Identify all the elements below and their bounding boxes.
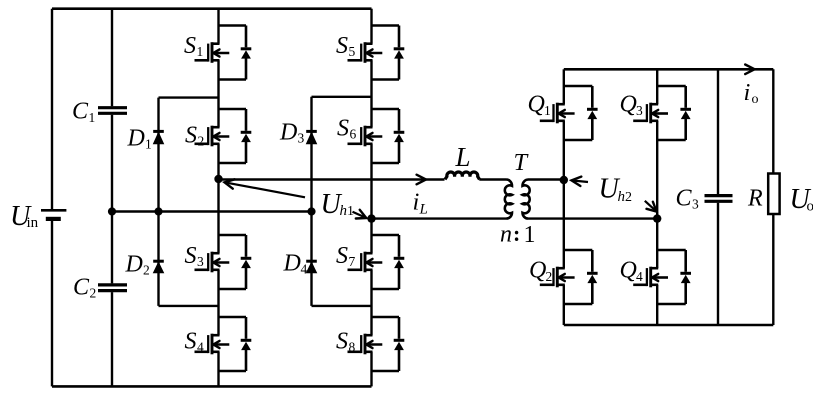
svg-text:S: S xyxy=(185,123,197,149)
svg-text:3: 3 xyxy=(298,131,305,146)
svg-text:1: 1 xyxy=(524,222,536,248)
label D4 xyxy=(283,251,308,277)
svg-text:C: C xyxy=(72,99,89,125)
wire switch leg 1 xyxy=(217,9,219,387)
svg-text:1: 1 xyxy=(145,137,152,152)
transistor S5 xyxy=(348,26,405,80)
svg-text:8: 8 xyxy=(349,340,356,355)
wire D3 top connector xyxy=(312,96,372,98)
transistor S2 xyxy=(195,109,252,163)
wire C3 leg xyxy=(717,69,719,194)
svg-text:4: 4 xyxy=(197,340,204,355)
svg-text:3: 3 xyxy=(197,254,204,269)
svg-text:D: D xyxy=(283,251,301,277)
transistor Q3 xyxy=(633,86,691,140)
label i_L xyxy=(413,189,420,216)
transistor S4 xyxy=(195,317,252,371)
label U_h1 xyxy=(321,189,343,220)
label n:1 xyxy=(500,221,536,248)
svg-text:S: S xyxy=(336,329,348,355)
svg-text:1: 1 xyxy=(347,204,354,219)
svg-text:R: R xyxy=(747,186,763,212)
svg-text:2: 2 xyxy=(625,190,632,205)
svg-text:i: i xyxy=(744,79,751,106)
label D2 xyxy=(125,252,150,278)
transistor S7 xyxy=(348,235,405,289)
label D3 xyxy=(279,120,305,146)
label U_h2 xyxy=(599,174,621,205)
label L xyxy=(455,142,471,172)
capacitor C2 xyxy=(98,285,127,291)
svg-text:2: 2 xyxy=(546,269,553,284)
node A (U_h1 +) xyxy=(214,175,222,183)
node C (U_h2 +) xyxy=(560,176,568,184)
label R xyxy=(747,186,763,212)
svg-text:i: i xyxy=(413,189,420,216)
wire R leg xyxy=(772,69,774,173)
svg-text:L: L xyxy=(419,202,428,218)
capacitor C3 xyxy=(705,196,733,202)
label U_o xyxy=(790,184,813,215)
svg-text:1: 1 xyxy=(544,103,551,118)
wire D1 top connector xyxy=(159,96,219,98)
wire switch leg 2 xyxy=(370,9,372,387)
transformer T secondary winding xyxy=(522,180,529,219)
transistor Q4 xyxy=(633,250,691,304)
svg-text:4: 4 xyxy=(301,262,308,277)
svg-text:Q: Q xyxy=(528,92,545,118)
svg-text:h: h xyxy=(618,189,626,205)
svg-text:Q: Q xyxy=(620,92,637,118)
svg-text:S: S xyxy=(336,33,348,59)
svg-text:1: 1 xyxy=(89,110,96,125)
wire D2 bottom connector xyxy=(159,305,219,307)
wire capacitor leg xyxy=(111,9,113,107)
label C1 xyxy=(72,99,95,125)
diode D1 xyxy=(153,131,164,143)
arrow U_h1 to node B xyxy=(353,210,367,219)
label C3 xyxy=(676,186,700,212)
svg-text::: : xyxy=(513,221,520,246)
arrowhead i_L xyxy=(417,175,426,185)
arrow U_h2 to node C xyxy=(572,177,589,186)
label S3 xyxy=(185,243,205,269)
label D1 xyxy=(127,126,152,152)
diode D4 xyxy=(306,261,317,273)
svg-text:C: C xyxy=(73,275,90,301)
transistor Q1 xyxy=(540,86,598,140)
svg-text:4: 4 xyxy=(636,269,643,284)
svg-text:D: D xyxy=(279,120,297,146)
transformer T primary winding xyxy=(505,180,512,219)
svg-text:Q: Q xyxy=(620,258,637,284)
svg-text:3: 3 xyxy=(636,103,643,118)
wire bottom rail (primary) xyxy=(52,385,372,388)
svg-text:h: h xyxy=(340,203,348,219)
svg-text:S: S xyxy=(185,329,197,355)
diode D3 xyxy=(306,131,317,143)
label S8 xyxy=(336,329,356,355)
capacitor C1 xyxy=(98,108,127,114)
transistor Q2 xyxy=(540,250,598,304)
svg-text:5: 5 xyxy=(349,44,356,59)
label S4 xyxy=(185,329,205,355)
svg-text:2: 2 xyxy=(143,263,150,278)
arrow U_h2 to node D xyxy=(645,201,657,212)
inductor L xyxy=(445,172,480,179)
svg-text:S: S xyxy=(184,33,196,59)
wire switch leg Q3/Q4 xyxy=(656,69,658,325)
label S6 xyxy=(337,116,357,142)
wire D4 bottom connector xyxy=(312,305,372,307)
resistor R xyxy=(768,174,779,215)
wire secondary bottom to node D xyxy=(528,217,657,219)
label Q4 xyxy=(620,258,644,285)
diode D2 xyxy=(153,261,164,273)
wire top rail (secondary) xyxy=(564,68,774,71)
label Q3 xyxy=(620,92,644,119)
label S1 xyxy=(184,33,203,59)
svg-text:o: o xyxy=(807,199,813,215)
transistor S3 xyxy=(195,235,252,289)
wire inductor to transformer xyxy=(479,178,506,180)
svg-text:2: 2 xyxy=(90,286,97,301)
svg-text:6: 6 xyxy=(350,127,357,142)
transistor S6 xyxy=(348,109,405,163)
svg-text:in: in xyxy=(27,215,39,231)
svg-text:o: o xyxy=(752,92,759,107)
svg-text:D: D xyxy=(125,252,143,278)
wire switch leg Q1/Q2 xyxy=(563,69,565,325)
wire left line lower xyxy=(51,219,53,386)
label Q1 xyxy=(528,92,551,119)
svg-text:Q: Q xyxy=(529,258,546,284)
svg-text:S: S xyxy=(337,116,349,142)
wire clamp diode leg 2 xyxy=(310,97,312,306)
wire secondary top to node C xyxy=(528,178,564,180)
svg-text:C: C xyxy=(676,186,693,212)
label S7 xyxy=(336,243,356,269)
wire clamp diode leg 1 xyxy=(157,98,159,306)
svg-text:2: 2 xyxy=(198,134,205,149)
svg-text:S: S xyxy=(185,243,197,269)
svg-text:D: D xyxy=(127,126,145,152)
node capacitor midpoint xyxy=(108,207,116,215)
svg-text:n: n xyxy=(500,222,512,248)
wire left line upper xyxy=(51,9,53,211)
wire neutral mid rail xyxy=(112,210,312,212)
label i_o xyxy=(744,79,751,106)
label T xyxy=(514,149,530,176)
svg-text:S: S xyxy=(336,243,348,269)
label U_in xyxy=(10,201,39,232)
wire top rail (primary) xyxy=(52,7,372,10)
label Q2 xyxy=(529,258,552,285)
arrow U_h1 to node A xyxy=(225,179,306,197)
arrowhead i_o xyxy=(745,65,754,75)
node clamp leg 1 midpoint xyxy=(154,207,162,215)
wire node B to transformer xyxy=(372,217,507,219)
transistor S8 xyxy=(348,317,405,371)
svg-text:1: 1 xyxy=(197,44,204,59)
wire bottom rail (secondary) xyxy=(564,324,774,327)
source U_in battery xyxy=(41,210,66,219)
label C2 xyxy=(73,275,96,301)
label S5 xyxy=(336,33,356,59)
node D (U_h2 -) xyxy=(653,214,661,222)
svg-text:7: 7 xyxy=(349,254,356,269)
node B (U_h1 -) xyxy=(367,214,375,222)
svg-text:T: T xyxy=(514,149,530,176)
node clamp leg 2 midpoint xyxy=(307,207,315,215)
svg-text:3: 3 xyxy=(692,197,699,212)
transistor S1 xyxy=(195,26,252,80)
label S2 xyxy=(185,123,204,149)
wire node A to inductor xyxy=(219,178,445,180)
svg-text:L: L xyxy=(455,142,471,172)
